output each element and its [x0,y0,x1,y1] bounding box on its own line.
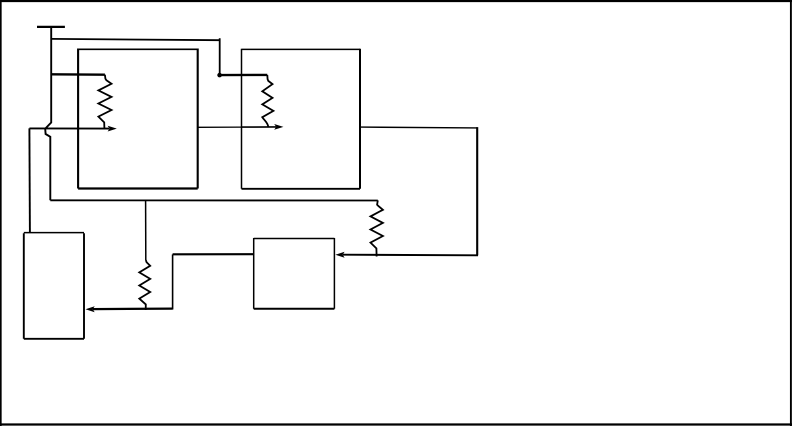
resistor 1 [98,75,111,129]
wire box1 to box2 [198,126,242,128]
wire with arrow into lower-left box [93,307,173,310]
resistor 3 [139,260,150,310]
wire up from arrow line [172,254,174,309]
wire into small box left [173,253,254,255]
wire from power rail down with hop over horizontal wire [45,26,51,200]
wire to resistor 1 top [51,73,105,76]
resistor 4 [371,200,383,256]
power rail T-bar [37,26,65,28]
wire with arrow into resistor 1 bottom [29,127,109,129]
junction dot [217,73,222,78]
wire into small box with arrow [343,254,478,257]
resistor 2 [262,75,273,127]
wire branch down to resistor 3 [145,201,147,261]
wire left vertical down to lower-left box [28,128,31,232]
block box 1 [78,48,198,50]
wire box2 right to corner [360,126,477,129]
long bus wire [50,199,378,201]
block small box [254,238,335,309]
wire junction to resistor 2 top [218,74,267,77]
wire inside box2 with arrow [242,126,277,128]
wire from power rail to top corner and down [51,38,220,75]
wire corner down [476,127,478,255]
block box 2 [242,49,361,189]
block lower-left tall box [24,233,84,338]
